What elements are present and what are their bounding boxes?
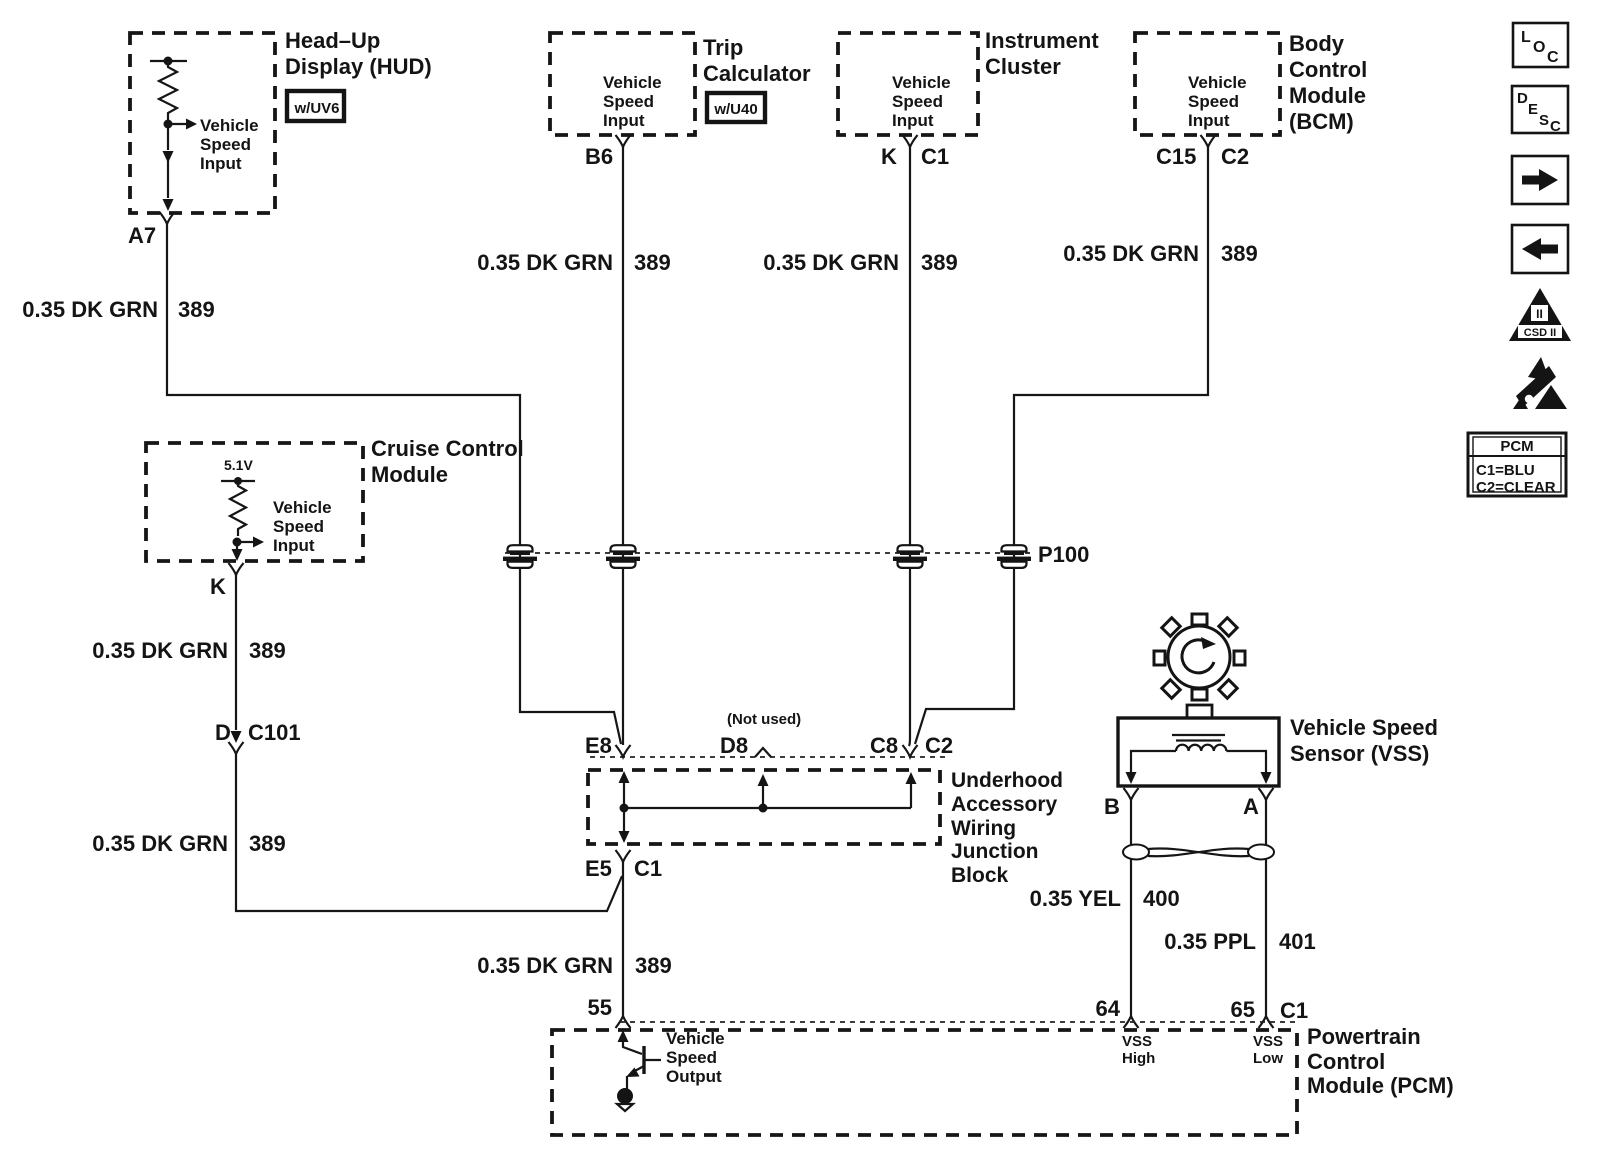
PCM output transistor Vehicle Speed Output [618,1030,662,1090]
svg-text:D8: D8 [720,733,748,758]
svg-text:L: L [1521,29,1531,46]
wire HUD A7 to E8 (circuit 389) [167,224,621,744]
junction internal bus branch to C8/C2 [906,772,917,808]
svg-text:C: C [1550,118,1561,135]
svg-text:401: 401 [1279,929,1316,954]
svg-text:Cruise Control: Cruise Control [371,436,524,461]
Instrument Cluster module box [838,33,978,135]
PCM connector mating face dashed line [620,1021,1300,1023]
svg-text:Powertrain: Powertrain [1307,1024,1421,1049]
Cruise Control Module title label [371,436,524,487]
junction internal bus branch to D8 [758,774,769,813]
svg-text:389: 389 [178,297,215,322]
svg-text:Vehicle: Vehicle [603,73,662,92]
Trip Calculator pin B6 connector fork [585,135,631,169]
svg-text:E8: E8 [585,733,612,758]
wire label 0.35 DK GRN 389 (BCM) [1063,241,1257,266]
VSS title label [1290,715,1438,766]
svg-text:Block: Block [951,864,1009,887]
Cruise internal wire down with arrow [232,542,243,561]
grommet on HUD wire at P100 [503,545,537,568]
BCM pins C15 / C2 connector fork [1156,135,1249,169]
sidebar back arrow icon [1512,225,1568,273]
svg-text:0.35 DK GRN: 0.35 DK GRN [477,953,613,978]
svg-text:C1: C1 [1280,998,1308,1023]
svg-text:Input: Input [603,111,645,130]
svg-text:Speed: Speed [273,517,324,536]
HUD pin A7 connector fork [128,212,175,248]
VSS body stem [1187,705,1212,719]
svg-text:Input: Input [1188,111,1230,130]
Trip Calculator w/U40 option box [707,93,765,122]
svg-text:w/U40: w/U40 [713,101,757,118]
twisted pair symbol [1123,845,1274,860]
svg-text:389: 389 [635,953,672,978]
svg-text:Head–Up: Head–Up [285,28,380,53]
svg-text:S: S [1539,112,1549,129]
VSS pickup coil [1176,745,1226,751]
wire label 0.35 DK GRN 389 (output) [477,953,671,978]
wire VSS A to PCM 65 (circuit 401) [1265,800,1267,1016]
svg-text:55: 55 [588,995,612,1020]
Instrument Cluster Vehicle Speed Input label [892,73,951,130]
svg-text:Speed: Speed [892,92,943,111]
svg-text:C1: C1 [921,144,949,169]
Body Control Module (BCM) box [1135,33,1280,135]
svg-text:Speed: Speed [603,92,654,111]
Cruise Control Module box [146,443,363,561]
VSS pin B connector fork [1104,788,1139,819]
HUD internal resistor [159,61,177,120]
svg-text:High: High [1122,1050,1155,1067]
svg-text:CSD II: CSD II [1524,327,1556,339]
PCM pin 65 / C1 connector fork [1231,997,1309,1028]
svg-text:P100: P100 [1038,542,1089,567]
svg-text:VSS: VSS [1122,1033,1152,1050]
Cruise Vehicle Speed Input label [273,498,332,555]
HUD internal wire down with arrows [163,124,174,211]
in-line connector C101 pin D [215,720,301,754]
svg-text:400: 400 [1143,886,1180,911]
sidebar CSD II warning triangle [1509,288,1571,341]
svg-text:A: A [1243,794,1259,819]
Vehicle Speed Sensor (VSS) box [1118,718,1279,786]
sidebar LOC icon [1513,23,1568,67]
svg-text:O: O [1533,39,1545,56]
svg-text:Vehicle: Vehicle [666,1029,725,1048]
svg-text:389: 389 [249,638,286,663]
wire Instrument Cluster C1 to C8 (circuit 389) [909,147,910,746]
svg-text:A7: A7 [128,223,156,248]
svg-text:Control: Control [1289,57,1367,82]
grommet on BCM wire at P100 [997,545,1031,568]
Vehicle Speed Output label [666,1029,725,1086]
svg-text:C15: C15 [1156,144,1196,169]
wire label 0.35 PPL 401 [1164,929,1315,954]
Instrument Cluster pins K / C1 connector fork [881,135,949,169]
wire C101 to E5 (circuit 389) [236,754,622,911]
svg-text:Calculator: Calculator [703,61,811,86]
PCM pin 55 connector fork [588,995,631,1028]
wire label 0.35 DK GRN 389 (HUD) [22,297,214,322]
svg-text:0.35 DK GRN: 0.35 DK GRN [92,638,228,663]
svg-text:Control: Control [1307,1049,1385,1074]
svg-text:64: 64 [1096,996,1121,1021]
svg-text:C: C [1547,49,1559,66]
Instrument Cluster title label [985,28,1099,79]
VSS Low pin label [1253,1033,1283,1067]
svg-text:0.35 DK GRN: 0.35 DK GRN [477,250,613,275]
svg-text:Speed: Speed [666,1048,717,1067]
wire label 0.35 DK GRN 389 (Instrument Cluster) [763,250,957,275]
PCM pin 64 connector fork [1096,996,1139,1028]
node C8 / C2 connector fork [870,733,953,758]
svg-text:(Not used): (Not used) [727,711,801,728]
svg-text:Module (PCM): Module (PCM) [1307,1073,1454,1098]
PCM internal ground [617,1088,633,1111]
node D8 (Not used) [720,711,801,758]
Cruise 5.1V supply label [224,457,253,473]
wire label 0.35 DK GRN 389 (Trip Calculator) [477,250,670,275]
svg-text:Display (HUD): Display (HUD) [285,54,432,79]
svg-text:Vehicle: Vehicle [273,498,332,517]
svg-text:II: II [1536,307,1543,321]
HUD Vehicle Speed Input label [200,116,259,173]
svg-text:Accessory: Accessory [951,793,1058,816]
svg-text:0.35 DK GRN: 0.35 DK GRN [763,250,899,275]
junction internal bus E8 to E5 [619,771,630,843]
Cruise node with arrow to Vehicle Speed Input [233,537,265,548]
svg-text:C101: C101 [248,720,301,745]
pass-through P100 dashed bulkhead line [505,542,1089,567]
Cruise supply bar [221,477,255,485]
svg-text:C1=BLU: C1=BLU [1476,462,1535,479]
junction block mating face dashed line [590,756,948,758]
svg-text:C2: C2 [1221,144,1249,169]
svg-text:Module: Module [1289,83,1366,108]
grommet on Instrument Cluster wire at P100 [893,545,927,568]
svg-text:Instrument: Instrument [985,28,1099,53]
svg-text:Vehicle: Vehicle [892,73,951,92]
svg-text:Sensor (VSS): Sensor (VSS) [1290,741,1429,766]
svg-text:Input: Input [200,154,242,173]
svg-text:Input: Input [892,111,934,130]
svg-text:0.35 YEL: 0.35 YEL [1030,886,1121,911]
svg-text:E5: E5 [585,856,612,881]
Trip Calculator module box [550,33,695,135]
VSS pickup core lines [1172,735,1225,741]
svg-text:389: 389 [249,831,286,856]
HUD w/UV6 option box [287,91,344,121]
svg-text:Junction: Junction [951,840,1039,863]
svg-text:389: 389 [1221,241,1258,266]
svg-text:C2=CLEAR: C2=CLEAR [1476,479,1556,496]
svg-text:0.35 PPL: 0.35 PPL [1164,929,1256,954]
junction block title label [951,769,1063,887]
svg-text:w/UV6: w/UV6 [293,100,339,117]
wire E5 to PCM pin 55 (circuit 389) [622,862,624,1016]
svg-text:B: B [1104,794,1120,819]
svg-text:Cluster: Cluster [985,54,1061,79]
svg-text:D: D [215,720,231,745]
svg-text:Vehicle: Vehicle [1188,73,1247,92]
wire label 0.35 DK GRN 389 (Cruise upper) [92,638,285,663]
wire label 0.35 DK GRN 389 (Cruise lower) [92,831,285,856]
svg-text:VSS: VSS [1253,1033,1283,1050]
svg-text:5.1V: 5.1V [224,457,253,473]
BCM Vehicle Speed Input label [1188,73,1247,130]
wire VSS B to PCM 64 (circuit 400) [1130,800,1132,1016]
Trip Calculator title label [703,35,811,86]
svg-text:K: K [881,144,897,169]
svg-text:C1: C1 [634,856,662,881]
sidebar PCM connector color legend [1468,433,1566,496]
junction internal horizontal bus [624,807,911,809]
svg-text:Underhood: Underhood [951,769,1063,792]
svg-text:K: K [210,574,226,599]
svg-text:0.35 DK GRN: 0.35 DK GRN [1063,241,1199,266]
svg-text:Module: Module [371,462,448,487]
svg-text:B6: B6 [585,144,613,169]
wire BCM C2 to junction C2 (circuit 389) [915,147,1208,744]
svg-text:389: 389 [921,250,958,275]
HUD internal pull-up bar [150,57,187,66]
svg-text:C8: C8 [870,733,898,758]
VSS High pin label [1122,1033,1155,1067]
svg-text:D: D [1517,90,1528,107]
wire label 0.35 YEL 400 [1030,886,1180,911]
node E5 / C1 connector fork [585,850,662,881]
grommet on Trip wire at P100 [606,545,640,568]
svg-text:Speed: Speed [1188,92,1239,111]
svg-text:0.35 DK GRN: 0.35 DK GRN [92,831,228,856]
svg-text:65: 65 [1231,997,1255,1022]
svg-text:389: 389 [634,250,671,275]
sidebar forward arrow icon [1512,156,1568,204]
node E8 connector fork [585,733,631,758]
svg-text:Trip: Trip [703,35,743,60]
svg-text:Body: Body [1289,31,1345,56]
Head-Up Display (HUD) module box [130,33,275,213]
svg-text:Low: Low [1253,1050,1283,1067]
svg-text:Vehicle Speed: Vehicle Speed [1290,715,1438,740]
Powertrain Control Module (PCM) box [552,1030,1297,1135]
sidebar ESD sensitive triangle [1513,357,1567,409]
HUD node with arrow to Vehicle Speed Input [164,119,198,130]
Trip Calculator Vehicle Speed Input label [603,73,662,130]
HUD title label [285,28,432,79]
Underhood Accessory Wiring Junction Block box [588,770,940,844]
svg-text:Vehicle: Vehicle [200,116,259,135]
wire Trip Calculator B6 to E8 (circuit 389) [622,147,624,745]
BCM title label [1289,31,1367,134]
svg-text:Speed: Speed [200,135,251,154]
Cruise internal resistor [230,481,246,536]
PCM title label [1307,1024,1454,1098]
VSS pin A connector fork [1243,788,1274,819]
wire Cruise K down to C101 [235,575,237,730]
svg-text:E: E [1528,101,1538,118]
svg-text:(BCM): (BCM) [1289,109,1354,134]
svg-text:Wiring: Wiring [951,817,1016,840]
VSS reluctor gear with rotation arrow [1154,614,1245,700]
svg-text:C2: C2 [925,733,953,758]
sidebar DESC icon [1512,86,1568,135]
svg-text:Input: Input [273,536,315,555]
Cruise pin K connector fork [210,563,244,599]
svg-text:PCM: PCM [1500,438,1533,455]
svg-text:0.35 DK GRN: 0.35 DK GRN [22,297,158,322]
VSS coil leads with arrows [1126,751,1272,784]
svg-text:Output: Output [666,1067,722,1086]
